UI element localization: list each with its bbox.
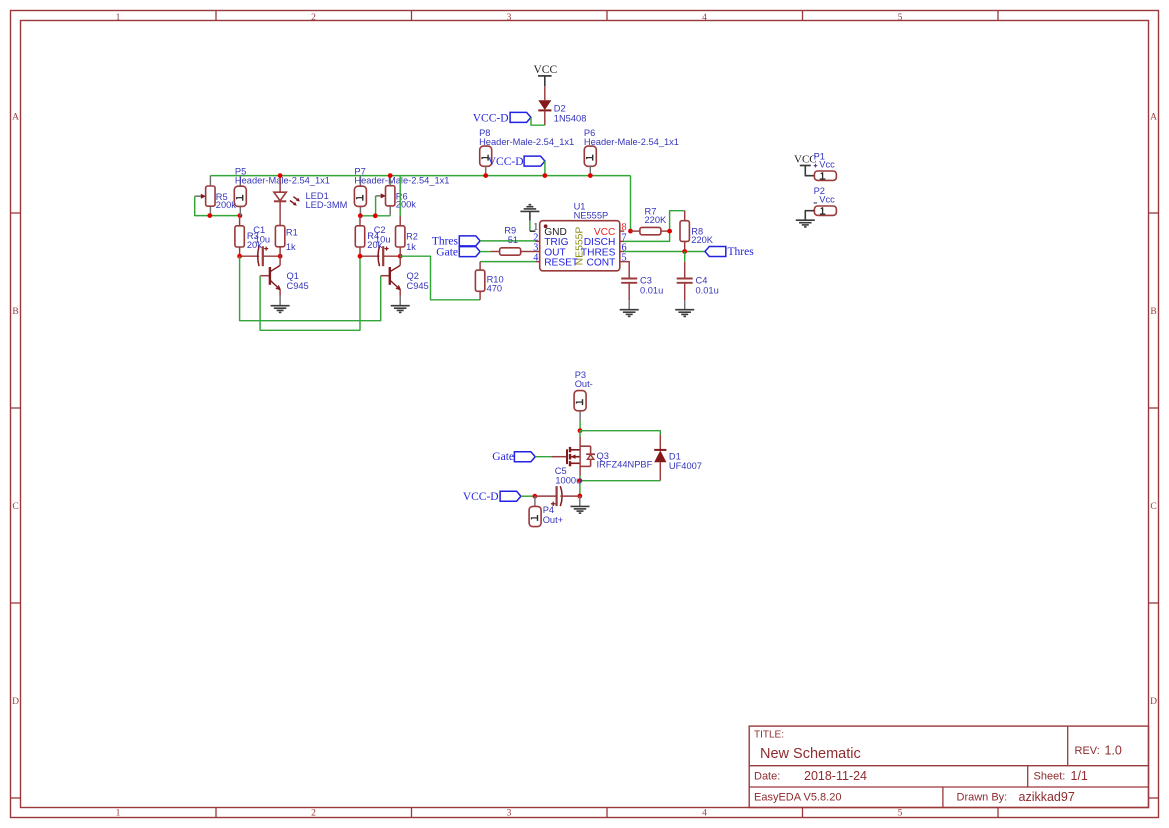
wire R6 wiper — [375, 196, 377, 216]
svg-text:Q1: Q1 — [287, 271, 299, 281]
wire C5 node to ground — [579, 496, 581, 506]
diode D1 — [654, 435, 702, 481]
pin name GND — [544, 227, 567, 238]
wire source to node — [579, 476, 581, 481]
svg-text:1: 1 — [116, 808, 121, 818]
LED LED1 — [274, 176, 347, 226]
svg-text:TITLE:: TITLE: — [754, 730, 784, 741]
svg-text:Out+: Out+ — [543, 515, 563, 525]
junction P6 rail — [588, 173, 593, 178]
ground Q2 emitter — [391, 306, 410, 313]
junction drain node — [578, 428, 583, 433]
svg-text:3: 3 — [507, 13, 512, 23]
svg-text:5: 5 — [898, 13, 903, 23]
ground Q1 emitter — [271, 306, 290, 313]
svg-text:0.01u: 0.01u — [696, 286, 719, 296]
pin name OUT — [544, 247, 566, 258]
svg-text:C945: C945 — [407, 281, 429, 291]
pin name THRES — [581, 247, 616, 258]
wire THRES to port — [624, 251, 705, 253]
svg-text:A: A — [1150, 112, 1157, 122]
port VCC-D bottom — [463, 491, 521, 503]
svg-text:CONT: CONT — [587, 258, 616, 269]
ground P2 — [796, 220, 815, 227]
svg-text:Vcc: Vcc — [819, 195, 835, 205]
resistor R7 — [631, 206, 670, 234]
svg-text:1k: 1k — [286, 242, 296, 252]
svg-text:220K: 220K — [691, 235, 714, 245]
svg-text:220K: 220K — [645, 215, 668, 225]
power VCC — [534, 64, 558, 86]
capacitor C5 — [535, 466, 581, 506]
junction R8 bottom — [682, 249, 687, 254]
svg-text:0.01u: 0.01u — [640, 286, 663, 296]
svg-text:RESET: RESET — [544, 258, 578, 269]
svg-text:P4: P4 — [543, 505, 554, 515]
junction pin8 — [628, 229, 633, 234]
capacitor C3 — [621, 276, 663, 310]
svg-text:Date:: Date: — [754, 771, 780, 783]
resistor R1 — [275, 226, 297, 257]
svg-text:1000u: 1000u — [555, 475, 581, 485]
svg-text:azikkad97: azikkad97 — [1019, 790, 1075, 804]
potentiometer R5 — [195, 176, 237, 216]
svg-text:REV:: REV: — [1075, 745, 1100, 757]
svg-text:5: 5 — [898, 808, 903, 818]
svg-text:10u: 10u — [255, 235, 271, 245]
svg-text:C1: C1 — [253, 225, 265, 235]
pin name RESET — [544, 258, 578, 269]
wire R8 bottom to C4 — [684, 252, 686, 262]
svg-text:Drawn By:: Drawn By: — [957, 792, 1008, 804]
svg-text:1N5408: 1N5408 — [554, 113, 587, 123]
pin name VCC — [594, 227, 616, 238]
svg-text:D: D — [1150, 697, 1157, 707]
svg-text:New Schematic: New Schematic — [760, 746, 861, 762]
svg-text:2: 2 — [311, 13, 316, 23]
svg-text:R2: R2 — [406, 231, 418, 241]
port Gate bottom — [492, 451, 535, 463]
wire D1 anode to source node — [580, 480, 660, 482]
svg-text:A: A — [12, 112, 19, 122]
pin name DISCH — [584, 237, 616, 248]
svg-text:1/1: 1/1 — [1071, 769, 1088, 783]
svg-text:C2: C2 — [374, 225, 386, 235]
pin 3 number — [533, 243, 538, 254]
header P4 — [529, 496, 563, 526]
svg-text:VCC: VCC — [534, 64, 558, 76]
junction P5 bottom — [238, 213, 243, 218]
wire Gate port to Q3 — [535, 456, 551, 458]
svg-text:Vcc: Vcc — [819, 160, 835, 170]
wire VCC-D to D2 — [531, 117, 545, 125]
power VCC P1 — [794, 154, 817, 176]
capacitor C1 — [253, 225, 270, 266]
wire CONT to C3 — [624, 262, 629, 279]
svg-text:NE555P: NE555P — [574, 211, 609, 221]
header P3 — [574, 370, 593, 421]
svg-text:C: C — [12, 502, 18, 512]
capacitor C2 — [374, 225, 391, 266]
port VCC-D top — [473, 112, 531, 124]
wire Q2 base cross-couple — [240, 256, 381, 321]
junction node A — [237, 254, 242, 259]
svg-text:Sheet:: Sheet: — [1034, 771, 1066, 783]
svg-text:EasyEDA V5.8.20: EasyEDA V5.8.20 — [754, 792, 841, 804]
svg-text:UF4007: UF4007 — [669, 461, 702, 471]
svg-text:IRFZ44NPBF: IRFZ44NPBF — [597, 460, 653, 470]
header P7 — [354, 166, 449, 216]
wire node C row — [360, 255, 400, 257]
svg-text:R9: R9 — [504, 225, 516, 235]
ground C3 — [620, 310, 639, 317]
svg-text:VCC-D: VCC-D — [473, 113, 509, 125]
svg-text:VCC-D: VCC-D — [488, 156, 524, 168]
junction R6 wiper — [373, 213, 378, 218]
pin 5 number — [622, 253, 627, 264]
svg-text:Header-Male-2.54_1x1: Header-Male-2.54_1x1 — [354, 176, 449, 186]
svg-text:D2: D2 — [554, 104, 566, 114]
port Thres left — [432, 236, 480, 248]
capacitor C4 — [677, 262, 719, 310]
svg-text:B: B — [1150, 307, 1156, 317]
junction P4 node — [533, 494, 538, 499]
diode D2 — [538, 86, 586, 125]
resistor R9 — [491, 225, 536, 255]
svg-text:51: 51 — [508, 235, 518, 245]
transistor Q1 — [260, 256, 309, 306]
pin 7 number — [622, 232, 627, 243]
junction VCC-D rail — [543, 173, 548, 178]
pin name CONT — [587, 258, 616, 269]
junction node D — [398, 254, 403, 259]
ground U1 pin1 — [520, 205, 539, 221]
wire source node down — [579, 481, 581, 496]
ground Q3 source — [571, 506, 590, 513]
wire drain to D1 cathode — [580, 431, 660, 435]
svg-text:LED-3MM: LED-3MM — [306, 200, 348, 210]
resistor R3 — [235, 216, 262, 257]
header P5 — [234, 166, 330, 215]
pin name TRIG — [544, 237, 568, 248]
pin 8 number — [622, 222, 627, 233]
svg-text:200k: 200k — [396, 200, 417, 210]
header P2 — [814, 186, 837, 216]
header P6 — [584, 128, 679, 176]
transistor Q3 IRFZ44NPBF — [551, 437, 652, 476]
svg-text:C3: C3 — [640, 276, 652, 286]
wire drain green tip — [579, 431, 581, 437]
junction R6 top — [388, 173, 393, 178]
svg-text:D: D — [12, 697, 19, 707]
pin 1 number — [533, 222, 538, 233]
junction P8 rail — [483, 173, 488, 178]
resistor R10 — [475, 262, 503, 300]
svg-text:Q2: Q2 — [407, 271, 419, 281]
pin 4 number — [533, 253, 538, 264]
wire R5 wiper to bottom — [195, 196, 240, 215]
port Gate left — [436, 246, 480, 258]
svg-text:470: 470 — [487, 284, 503, 294]
svg-text:C4: C4 — [696, 276, 708, 286]
svg-text:1.0: 1.0 — [1105, 743, 1122, 757]
svg-text:Header-Male-2.54_1x1: Header-Male-2.54_1x1 — [479, 137, 574, 147]
svg-text:4: 4 — [702, 808, 707, 818]
svg-text:Out-: Out- — [575, 379, 593, 389]
wire node D to R10 — [400, 256, 480, 300]
svg-text:10u: 10u — [375, 235, 391, 245]
junction node C — [358, 254, 363, 259]
svg-text:1k: 1k — [406, 242, 416, 252]
pin 2 number — [533, 232, 538, 243]
IC U1 NE555P — [535, 202, 624, 271]
wire Gate to R9 — [480, 251, 491, 253]
header P1 — [814, 151, 837, 180]
wire RESET — [480, 261, 535, 263]
wire pin8 drop — [630, 176, 632, 232]
svg-text:2: 2 — [311, 808, 316, 818]
svg-text:Gate: Gate — [436, 246, 458, 258]
resistor R2 — [396, 176, 418, 257]
junction C5 node — [577, 494, 582, 499]
wire Q1 base cross-couple — [260, 256, 360, 330]
pin 6 number — [622, 243, 627, 254]
header P8 — [479, 128, 574, 176]
wire ground to pin1 — [529, 221, 531, 232]
svg-text:Header-Male-2.54_1x1: Header-Male-2.54_1x1 — [584, 137, 679, 147]
junction R7 right — [667, 229, 672, 234]
potentiometer R6 — [376, 176, 417, 216]
wire P2 to ground — [805, 211, 814, 220]
port VCC-D mid — [488, 156, 545, 168]
svg-text:3: 3 — [507, 808, 512, 818]
wire P7 to R6 bottom — [360, 215, 390, 217]
junction source node — [578, 478, 583, 483]
svg-text:C: C — [1150, 502, 1156, 512]
wire VCC-D rail — [210, 175, 630, 177]
transistor Q2 — [381, 256, 429, 306]
svg-text:2018-11-24: 2018-11-24 — [804, 769, 867, 783]
ground C4 — [675, 310, 694, 317]
junction P7 bottom — [358, 213, 363, 218]
svg-text:1: 1 — [116, 13, 121, 23]
wire DISCH to R8 top — [624, 211, 685, 242]
svg-text:C945: C945 — [287, 281, 309, 291]
wire node A row — [240, 255, 281, 257]
svg-text:200k: 200k — [216, 200, 237, 210]
resistor R8 — [680, 211, 714, 252]
wire VCC-D to C5 — [521, 495, 535, 497]
junction LED1 top — [278, 173, 283, 178]
wire P3 to drain node — [579, 421, 581, 431]
resistor R4 — [355, 216, 382, 256]
svg-text:4: 4 — [702, 13, 707, 23]
junction R5 bottom — [207, 213, 212, 218]
port Thres right — [705, 246, 754, 258]
svg-text:R1: R1 — [286, 227, 298, 237]
junction node B — [278, 254, 283, 259]
svg-text:VCC-D: VCC-D — [463, 491, 499, 503]
svg-text:Header-Male-2.54_1x1: Header-Male-2.54_1x1 — [235, 176, 330, 186]
wire VCC-D mid to rail — [544, 161, 546, 176]
svg-text:B: B — [12, 307, 18, 317]
wire Thres to TRIG — [480, 240, 535, 242]
svg-text:Gate: Gate — [492, 451, 514, 463]
svg-text:Thres: Thres — [728, 246, 755, 258]
